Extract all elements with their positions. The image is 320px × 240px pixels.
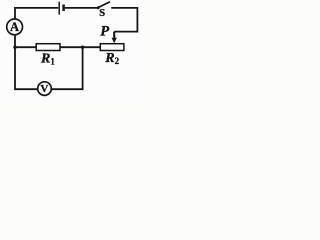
svg-text:P: P (100, 24, 109, 40)
svg-text:V: V (40, 83, 48, 95)
svg-text:A: A (10, 20, 19, 34)
svg-text:S: S (99, 8, 105, 19)
